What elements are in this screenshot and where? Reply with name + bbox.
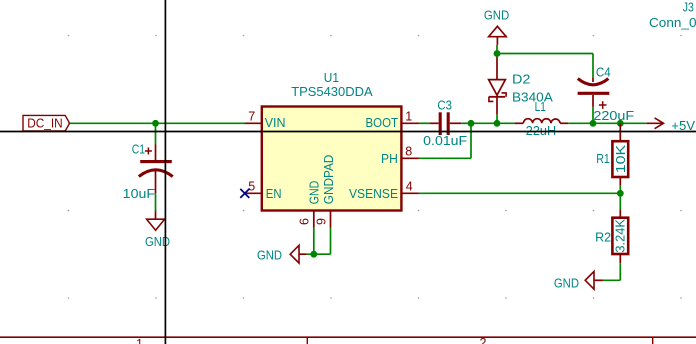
ground top [484,7,509,44]
svg-text:10K: 10K [613,144,628,173]
svg-text:4: 4 [406,179,413,193]
junction vsense node [617,190,624,197]
cursor crosshair horizontal [0,131,696,133]
wire gnd node to C4 [497,53,593,55]
svg-text:R1: R1 [596,151,610,166]
svg-text:0.01uF: 0.01uF [423,133,467,148]
no-connect X on EN [240,189,249,198]
svg-text:5: 5 [248,179,255,193]
junction D2 node [494,120,501,127]
svg-text:22uH: 22uH [526,123,556,138]
svg-text:VSENSE: VSENSE [349,186,398,201]
capacitor C1 [139,144,173,193]
junction R1 on rail [617,120,624,127]
wire node to L1 [471,122,515,124]
svg-text:GND: GND [484,7,509,22]
pin 9 GNDPAD [315,155,337,228]
svg-text:GNDPAD: GNDPAD [321,155,336,205]
wire R2 to ground [603,279,620,281]
junction IC ground [310,251,317,258]
wire R1 to vsense node [619,186,621,194]
pin 8 PH [381,144,419,166]
wire D2 to node [496,114,498,123]
wire PH up to node [470,123,472,158]
wire C3 to node [461,122,471,124]
svg-text:GND: GND [554,276,579,291]
wire L1 to +5V [568,122,646,124]
wire PH pin [419,157,471,159]
ground at IC pins [257,245,306,263]
wire DC_IN to VIN [70,122,245,124]
junction C3/PH node [468,120,475,127]
svg-text:BOOT: BOOT [366,115,399,130]
svg-text:C3: C3 [437,97,452,112]
capacitor C3 [430,112,462,135]
wire pin9 down [330,228,332,254]
svg-text:B340A: B340A [512,90,553,105]
wire input node down to C1 [155,123,157,144]
hierarchical label DC_IN [23,115,70,131]
svg-text:GND: GND [145,234,170,249]
svg-text:DC_IN: DC_IN [27,115,63,130]
svg-text:Conn_0: Conn_0 [649,15,696,30]
svg-text:D2: D2 [512,71,530,86]
svg-text:TPS5430DDA: TPS5430DDA [291,84,373,99]
svg-text:220uF: 220uF [593,108,634,123]
inductor L1 [515,119,569,124]
svg-text:VIN: VIN [265,115,286,130]
svg-text:6: 6 [298,218,312,225]
resistor R2 [612,209,628,263]
wire pin9 to ground junction [306,253,330,255]
svg-text:8: 8 [405,144,412,158]
pin 5 EN [245,179,282,201]
svg-text:L1: L1 [535,99,546,114]
pin 1 BOOT [366,109,419,130]
wire VSENSE [419,192,620,194]
pin 4 VSENSE [349,179,419,201]
svg-text:U1: U1 [324,70,339,85]
svg-text:GND: GND [257,248,282,263]
junction top gnd node [494,50,501,57]
pin 6 GND [298,181,322,228]
wire node to R2 [619,193,621,209]
cursor crosshair vertical [164,0,166,344]
svg-text:GND: GND [306,181,321,205]
junction C4 on rail [590,120,597,127]
svg-text:C4: C4 [596,64,611,79]
pin 7 VIN [245,109,286,130]
resistor R1 [612,123,628,186]
svg-text:9: 9 [315,218,329,225]
ground at R2 [554,271,603,290]
wire pin6 down [313,228,315,254]
svg-text:R2: R2 [595,229,611,244]
diode D2 [489,55,507,115]
svg-text:10uF: 10uF [123,186,155,201]
svg-text:2: 2 [480,336,487,344]
wire C4 to rail [592,107,594,123]
power +5V [646,118,695,133]
svg-text:J3: J3 [683,0,694,15]
svg-text:C1: C1 [132,141,145,156]
wire D2 up to gnd junction [496,45,498,54]
ground below C1 [145,212,170,250]
svg-text:3.24K: 3.24K [612,219,627,253]
svg-text:1: 1 [136,337,143,344]
wire C1 to ground [155,193,157,212]
wire down to C4 [592,54,594,78]
IC U1 [262,70,402,211]
svg-text:1: 1 [405,109,412,123]
capacitor C4 [578,77,610,109]
wire BOOT to C3 [419,122,430,124]
svg-text:EN: EN [266,186,282,201]
junction input node [152,120,159,127]
svg-text:7: 7 [248,109,255,123]
wire R2 down [619,263,621,280]
svg-text:PH: PH [381,151,398,166]
